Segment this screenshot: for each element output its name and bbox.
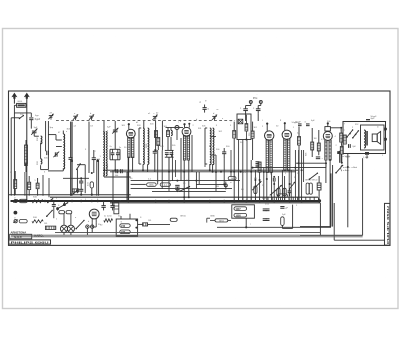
wire bracket drop: [204, 164, 206, 167]
resistor R2b: [72, 189, 79, 192]
wire left drop: [10, 118, 12, 196]
antenna coupling box: [17, 103, 26, 107]
wire A2 drop: [26, 104, 28, 201]
svg-text:GECD: GECD: [180, 216, 187, 218]
capacitor C26: [348, 144, 350, 148]
rectifier tube V6: [89, 209, 99, 223]
svg-text:c: c: [178, 122, 179, 124]
wire: [11, 117, 19, 119]
svg-text:50μμF: 50μμF: [371, 116, 378, 118]
svg-text:1007: 1007: [236, 209, 242, 211]
output box: [343, 122, 386, 154]
wire: [33, 133, 35, 136]
capacitor C10 pair: [115, 169, 117, 173]
trimmer C4: [54, 152, 56, 156]
wire IF1 drop b: [147, 164, 149, 171]
wire selector up: [120, 216, 122, 219]
svg-text:50μμF: 50μμF: [292, 122, 299, 124]
capacitor C25 top: [366, 119, 370, 121]
wire x43: [42, 175, 44, 196]
wire osc v1: [71, 122, 73, 196]
wire IF1 top: [143, 121, 145, 128]
switch S2: [77, 164, 80, 169]
caps C32 pair: [263, 208, 267, 210]
bus y184.4a: [131, 183, 146, 185]
resistor R17: [317, 143, 320, 151]
switch S1 antenna: [20, 116, 24, 119]
wire lamps top: [63, 214, 65, 225]
bus drop tick 0: [238, 197, 240, 200]
tube V3 (duo-diode): [265, 123, 274, 173]
capacitor C1: [29, 117, 33, 119]
dial lamp LP2: [67, 225, 74, 232]
svg-text:GECD: GECD: [312, 180, 319, 182]
wire det drop 6: [263, 168, 265, 201]
svg-text:∅: ∅: [14, 217, 16, 220]
junction: [71, 160, 73, 162]
wire mains right: [138, 223, 143, 225]
bus y184.4b: [196, 183, 226, 185]
wire x192: [191, 135, 193, 172]
tube V4 (AF pre): [282, 122, 291, 170]
bus y188.6: [131, 188, 232, 190]
capacitor C34: [280, 206, 284, 208]
bullet point: [14, 211, 18, 215]
bus drop tick 15: [301, 197, 303, 200]
wire IF1 drop a: [142, 164, 144, 170]
caps C33 pair: [263, 218, 267, 220]
loop h y235.4: [300, 234, 363, 236]
terminal T1: [14, 199, 17, 202]
wire det drop 8: [271, 172, 273, 200]
pill box AVC: [232, 205, 255, 218]
resistor R16: [311, 142, 314, 150]
padder C9b: [116, 152, 120, 154]
speaker driver: [372, 134, 377, 142]
tube V2 (IF amp): [182, 123, 191, 160]
resistor R31 pill: [19, 199, 27, 202]
svg-text:1M: 1M: [314, 138, 317, 140]
loop v x334: [333, 203, 335, 240]
wire padder down: [114, 160, 116, 171]
volume pot wiper: [252, 181, 261, 190]
dial lamp LP1: [60, 225, 67, 232]
capacitor C20 grounded: [175, 184, 179, 186]
padder bracket: [110, 148, 120, 150]
capacitor C6: [92, 157, 96, 159]
coil L1a: [41, 136, 42, 144]
resistor R13 pill: [160, 183, 170, 186]
electrolytic box C30: [114, 203, 119, 214]
wire det drop 12: [284, 176, 286, 201]
wire L5 drop: [168, 157, 170, 191]
resistor R3b: [157, 138, 160, 146]
coil L4 IF1 secondary: [148, 128, 149, 164]
gang tuning dashed line: [56, 120, 235, 122]
tone pot wiper: [290, 182, 295, 188]
mains switch S6: [58, 203, 68, 209]
wire A1 branch drop: [13, 113, 15, 196]
capacitor C7b: [79, 188, 83, 190]
resistor R26: [143, 223, 148, 226]
svg-text:PHILIPS 656U: PHILIPS 656U: [11, 240, 50, 244]
coil L3 oscillator: [103, 132, 104, 176]
antenna arrow A1: [11, 93, 17, 99]
pill Rb: [234, 213, 247, 217]
wire R3 drop: [157, 150, 159, 184]
resistor R15: [298, 137, 301, 146]
capacitor C29 electrolytic: [110, 205, 114, 207]
bus drop tick 6: [263, 197, 265, 200]
resistor R29: [28, 182, 31, 189]
X-link symbol: [238, 119, 243, 124]
wire af h163 turn: [325, 163, 327, 167]
loop rect 1: [278, 205, 280, 209]
wire det drop 4: [254, 170, 256, 201]
bus y170.2: [104, 169, 298, 171]
wire L2 bottom: [62, 168, 64, 171]
component bracket: [206, 218, 208, 222]
wire x303.5: [303, 150, 305, 182]
resistor R5: [233, 131, 236, 139]
capacitor C27 bottom: [365, 152, 369, 154]
coil L1b: [41, 159, 42, 164]
capacitor C28 electrolytic: [101, 205, 105, 207]
bus y162.8: [340, 162, 342, 164]
junction blob: [318, 199, 321, 202]
wire V5 drops: [325, 160, 327, 183]
svg-text:∅: ∅: [14, 196, 16, 199]
V2 anode dot: [188, 123, 190, 125]
wire x24.9: [24, 172, 26, 196]
bus y232.6: [55, 232, 320, 234]
PU cap C15: [256, 108, 261, 110]
svg-text:c: c: [250, 223, 251, 225]
switch S3: [180, 187, 190, 192]
resistor R14 pill: [278, 194, 288, 197]
wire lamp1 down: [63, 232, 65, 235]
wire IF2 drop b: [212, 164, 214, 172]
bus drop tick 16: [305, 197, 307, 200]
wire V6 legs down: [91, 223, 93, 227]
resistor R19 pill: [309, 183, 312, 194]
bus drop tick 5: [259, 197, 261, 200]
resistor R24 pill: [66, 211, 72, 214]
wire det drop 7: [266, 172, 268, 200]
wire L2 steps: [48, 134, 56, 136]
bus drop tick 12: [288, 197, 290, 200]
resistor R4: [167, 131, 170, 137]
wire R5 drop: [233, 146, 235, 201]
wire x49: [48, 178, 50, 197]
wire C8: [114, 121, 116, 130]
svg-text:50μF: 50μF: [346, 157, 352, 159]
tone switch contacts: [347, 130, 353, 137]
bus drop tick 7: [267, 197, 269, 200]
bus y202.8: [110, 202, 320, 204]
bus y171.8: [110, 171, 296, 173]
svg-text:GMD: GMD: [210, 215, 215, 217]
volume pot body: [254, 186, 257, 194]
wire x172 drop: [171, 150, 173, 181]
switch S5: [336, 165, 343, 172]
side label PHILIPS 656U (vertical): [385, 203, 390, 245]
bus drop tick 11: [284, 197, 286, 200]
svg-text:P.U.: P.U.: [253, 96, 258, 100]
voltage selector box: [116, 219, 137, 236]
resistor R2 (0.05): [90, 182, 93, 188]
bus junction dots: [26, 200, 29, 203]
bus y167.6: [252, 167, 326, 169]
capacitor C31: [52, 204, 56, 206]
wire x301: [301, 150, 303, 201]
transformer core: [365, 131, 367, 146]
tube V5 column hatch: [325, 140, 327, 142]
selector terminals: [135, 219, 137, 221]
wire lamp2 down: [70, 232, 72, 235]
wire det drop 0: [238, 140, 240, 201]
junction dots mid: [71, 160, 73, 162]
svg-text:30Ω: 30Ω: [33, 217, 37, 219]
bus y197.2: [50, 196, 318, 198]
capacitor C11: [153, 150, 157, 152]
selector pill 220: [120, 230, 130, 234]
wire L6 taps: [209, 146, 211, 147]
faint double line b: [11, 236, 363, 238]
bus drop tick 4: [254, 197, 256, 200]
resistor R11 pill: [283, 188, 286, 196]
junction dot: [339, 151, 341, 153]
svg-text:GMC: GMC: [149, 185, 154, 187]
svg-text:mit Acc. u.Batt: mit Acc. u.Batt: [343, 166, 357, 169]
capacitor C7: [79, 180, 83, 182]
switch S8: [48, 199, 53, 203]
coil L2 (big RF coil): [63, 134, 64, 169]
bus drop tick 8: [271, 197, 273, 200]
wire antenna L: [13, 102, 15, 104]
switch S2b: [74, 190, 78, 193]
wire IF2 drop a: [209, 164, 211, 170]
svg-text:GEGD: GEGD: [342, 137, 344, 143]
wire V1 drops: [127, 158, 129, 202]
svg-text:m: m: [377, 127, 379, 129]
wire x113 drop: [112, 170, 114, 201]
bus y227.3: [217, 226, 331, 228]
resistor R8: [251, 131, 254, 138]
svg-text:PHILIPS 656U: PHILIPS 656U: [386, 206, 390, 244]
speaker inner box: [361, 125, 385, 150]
capacitor C3: [46, 151, 48, 155]
speaker transformer coil: [364, 130, 366, 148]
bus drop tick 18: [313, 197, 315, 200]
resistor R23 pill: [59, 211, 65, 214]
square terminal: [337, 151, 340, 154]
wire r35: [56, 227, 60, 229]
wire: [30, 120, 32, 129]
terminal T2: [14, 220, 17, 223]
bus drop tick 17: [309, 197, 311, 200]
wire x246 drop: [245, 218, 247, 227]
svg-text:1651: 1651: [106, 164, 108, 170]
gang trimmer T0: [49, 115, 53, 117]
svg-text:GECI: GECI: [219, 220, 225, 222]
fuse terminals: [86, 225, 89, 228]
title box N.S.F.: [10, 234, 32, 239]
wire af tops: [296, 121, 312, 123]
wire V3 V4 tops: [266, 124, 268, 131]
capacitor C21: [298, 123, 302, 125]
wire det drop 11: [281, 171, 283, 201]
wire osc v2: [88, 122, 90, 173]
wire C16 drop: [223, 158, 225, 184]
wire R20-21: [340, 128, 342, 133]
svg-text:0μμF: 0μμF: [35, 119, 41, 121]
bus drop tick 13: [292, 197, 294, 200]
PU terminal 1: [249, 100, 252, 103]
svg-text:o.Batt.: o.Batt.: [343, 169, 350, 172]
faint double line a: [11, 234, 363, 236]
selector pill 240: [120, 224, 130, 228]
wire spk bottom drops: [340, 154, 342, 163]
wire coil join: [40, 143, 42, 159]
svg-text:1M: 1M: [231, 178, 234, 180]
svg-text:3μF: 3μF: [34, 127, 38, 129]
wire V5 anode: [330, 127, 341, 129]
bus y180.6: [131, 180, 240, 182]
capacitor C16: [222, 151, 226, 153]
antenna arrow A2: [24, 93, 30, 99]
wire L2 top: [62, 131, 64, 135]
coil L6b IF2: [210, 147, 211, 165]
gang trimmer T3: [153, 115, 157, 117]
bus drop tick 1: [242, 197, 244, 200]
coil L5 small: [171, 130, 172, 135]
wire x341 down: [340, 154, 342, 163]
loop v x364.3: [363, 154, 365, 158]
junction dots bus: [70, 194, 72, 196]
svg-text:30Ω: 30Ω: [33, 197, 37, 199]
resistor R35 box: [45, 226, 55, 229]
padder C9a: [111, 152, 115, 154]
capacitor C18: [272, 178, 274, 182]
mains switch S7: [76, 220, 84, 228]
wire R1 top: [25, 140, 27, 145]
wire det drop 5: [259, 172, 261, 201]
wire: [40, 165, 42, 169]
grid cap terminal: [175, 126, 179, 130]
PU wire: [245, 114, 247, 121]
loop h y240.2: [334, 239, 384, 241]
box internal wire: [245, 115, 247, 124]
trimmer C8: [113, 129, 118, 131]
loop v x320: [319, 203, 321, 235]
resistor R1: [25, 145, 28, 164]
resistor R7 in box: [245, 124, 248, 131]
bus drop tick 2: [246, 197, 248, 200]
resistor R20: [340, 133, 343, 142]
bus y195.7: [9, 194, 131, 196]
capacitor C5: [69, 157, 73, 159]
bus y191.4: [152, 190, 226, 192]
switch S9: [47, 210, 52, 216]
capacitor C22: [306, 123, 310, 125]
bus drop tick 19: [317, 197, 319, 200]
wire to switch: [14, 112, 31, 114]
svg-text:8μF: 8μF: [371, 118, 375, 120]
wire vertical k1: [45, 121, 47, 151]
resistor R36 pill: [281, 217, 284, 226]
bus drop tick 14: [296, 197, 298, 200]
resistor R6 pill: [228, 177, 236, 180]
zigzag R32: [32, 200, 43, 203]
gang trimmer T1: [73, 115, 77, 117]
capacitor C12 pair: [165, 152, 169, 154]
resistor R27 pill: [170, 218, 177, 221]
wire x121 drop: [120, 150, 122, 169]
gang trimmer T4: [212, 115, 216, 117]
box terminals: [384, 128, 386, 130]
trimmer C2 (variable): [32, 130, 37, 132]
shield box: [237, 114, 251, 140]
PU cap C14: [243, 108, 248, 110]
wire x216 drop: [215, 155, 217, 191]
resistor R9: [258, 162, 261, 172]
wire V2 drops: [183, 160, 185, 201]
IF1 core bracket: [138, 128, 140, 164]
wire det drop 10: [277, 176, 279, 201]
bus drop tick 10: [280, 197, 282, 200]
capacitor C19: [288, 190, 292, 192]
resistor R28: [14, 180, 17, 189]
loop h y226.6: [300, 226, 331, 228]
wire R2: [91, 173, 93, 182]
resistor R30: [36, 183, 39, 189]
svg-text:1008: 1008: [236, 216, 242, 218]
pot marker: [224, 184, 227, 187]
wire S2 loop: [76, 169, 78, 193]
resistor R3: [155, 131, 158, 138]
wire det drop 14: [290, 171, 292, 201]
tube V5 (output): [323, 122, 332, 160]
heater pair: [96, 161, 98, 196]
coil L6a IF2: [210, 128, 211, 146]
IF2 core bracket: [204, 128, 206, 164]
bus drop tick 3: [250, 197, 252, 200]
gang trimmer T2: [89, 115, 93, 117]
wire det drop 2: [246, 140, 248, 201]
resistor R33 pill: [19, 220, 27, 223]
choke R25 zigzag: [104, 219, 113, 222]
title box PHILIPS 656U: [9, 240, 51, 244]
pill Ra: [234, 207, 247, 211]
wire x199 drop: [198, 172, 200, 185]
wire det drop 3: [250, 160, 252, 201]
resistor R21: [340, 147, 343, 155]
capacitor C17 pair: [256, 161, 260, 163]
wire L3 top: [103, 121, 105, 134]
wire x196 drop: [195, 172, 197, 189]
field coil R22: [343, 135, 346, 144]
wire r34: [155, 121, 157, 151]
resistor R18 pill: [306, 183, 309, 194]
schematic border frame: [9, 91, 391, 245]
wire det drop 16: [298, 150, 300, 201]
main bus y201 (thick): [11, 200, 321, 202]
wire det drop 9: [273, 181, 275, 200]
wire x175 drop: [175, 160, 177, 177]
coil L4 IF1 primary: [143, 128, 144, 164]
switch S4 contact: [309, 173, 317, 179]
